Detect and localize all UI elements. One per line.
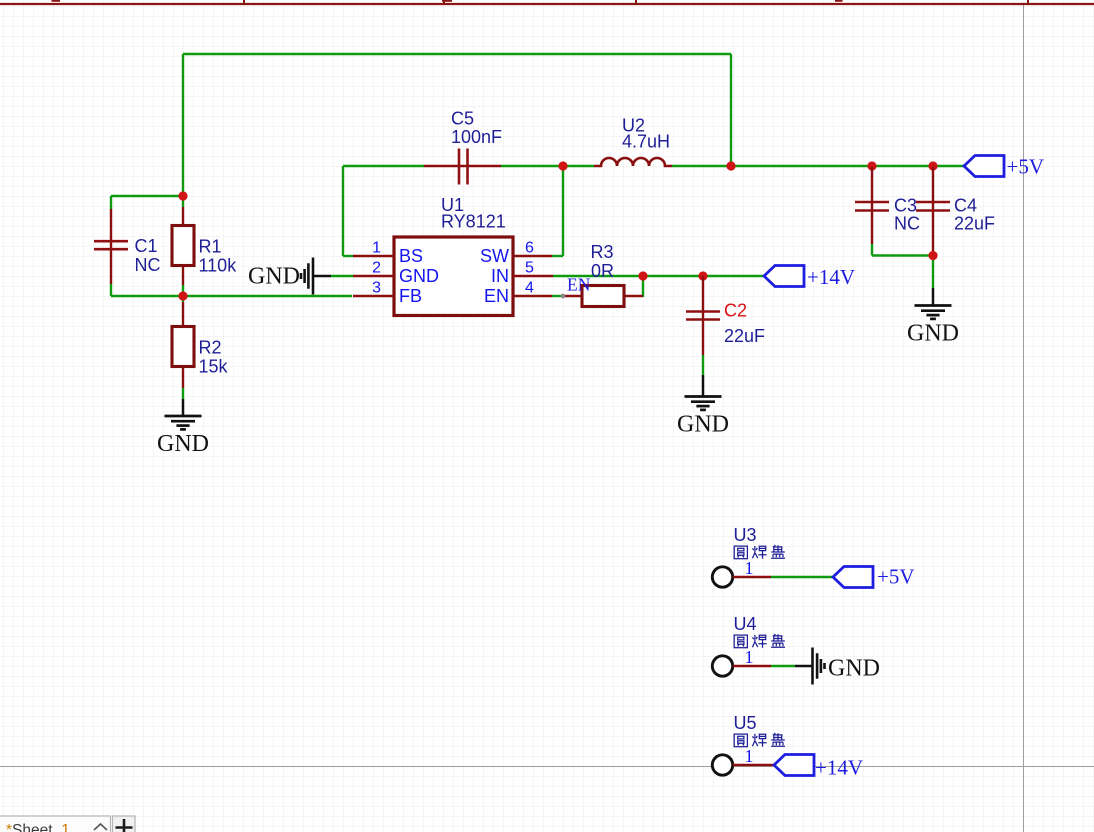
ground symbol GND under C4 xyxy=(915,288,952,319)
ground symbol GND under R2 xyxy=(165,399,202,429)
power flag +5V at U3 xyxy=(833,567,873,588)
capacitor C5 xyxy=(458,149,461,185)
wire C1 bottom horizontal xyxy=(111,295,183,297)
capacitor C1 plates xyxy=(94,240,128,243)
svg-text:+14V: +14V xyxy=(807,265,855,289)
U4 pin lead xyxy=(733,665,771,667)
label U5 value round-pad (CJK drawn) xyxy=(734,733,785,747)
capacitor C3 leads xyxy=(871,167,873,244)
junction node I (C2/IN) xyxy=(698,271,707,280)
svg-text:1: 1 xyxy=(745,746,754,766)
svg-text:EN: EN xyxy=(567,275,591,295)
label U3 value round-pad (CJK drawn) xyxy=(734,545,785,559)
wire C5 right to inductor xyxy=(501,165,594,167)
wire R1-R2 node stub xyxy=(182,285,184,302)
svg-text:1: 1 xyxy=(372,240,381,257)
wire C2 to ground stub xyxy=(702,355,704,375)
wire C4 bottom to ground xyxy=(932,256,934,289)
svg-text:EN: EN xyxy=(484,286,509,306)
svg-text:110k: 110k xyxy=(199,256,238,276)
wire C1 bottom stub xyxy=(110,284,112,296)
connector U4 round pad circle xyxy=(712,656,732,676)
wire C3-C4 bottom horizontal xyxy=(872,254,933,256)
junction node G (C3/C4 bottom) xyxy=(928,251,937,260)
power flag +5V main xyxy=(964,156,1004,177)
svg-text:C3: C3 xyxy=(894,196,917,216)
svg-text:0R: 0R xyxy=(591,261,614,281)
svg-text:NC: NC xyxy=(894,214,920,234)
capacitor C4 leads xyxy=(932,167,934,251)
net label EN anchor dot xyxy=(561,294,566,299)
wire to pin1 xyxy=(343,255,353,257)
svg-text:GND: GND xyxy=(399,266,439,286)
svg-text:GND: GND xyxy=(828,656,880,682)
connector U5 round pad circle xyxy=(712,755,732,775)
svg-text:GND: GND xyxy=(907,321,959,347)
junction node E (C3 top) xyxy=(867,161,876,170)
sheet border ticks xyxy=(244,0,1028,5)
capacitor C2 xyxy=(686,310,720,313)
wire C1 top horizontal xyxy=(111,195,183,197)
inductor U2 4.7uH xyxy=(594,158,672,166)
canvas origin axis horizontal xyxy=(0,766,1094,768)
wire SW net vertical xyxy=(562,166,564,256)
junction node H (R3/IN) xyxy=(638,271,647,280)
U1 pin numbers xyxy=(372,240,534,297)
U1 pin names xyxy=(399,246,514,306)
svg-text:4: 4 xyxy=(525,280,534,297)
resistor R1 leads xyxy=(182,207,184,226)
power flag +14V at U5 xyxy=(774,755,814,776)
wire C1 top stub xyxy=(110,196,112,209)
svg-text:C2: C2 xyxy=(724,301,747,321)
resistor R2 leads xyxy=(182,302,184,327)
junction node B (FB divider) xyxy=(178,291,187,300)
U5 pin lead xyxy=(733,764,774,766)
svg-text:15k: 15k xyxy=(199,357,229,377)
resistor R1 xyxy=(172,226,194,266)
wire top loop horizontal xyxy=(183,53,731,55)
svg-text:R3: R3 xyxy=(591,242,614,262)
wire top loop right vertical xyxy=(730,54,732,166)
U1 pin 3 FB xyxy=(353,295,394,297)
wire U4 to ground flag xyxy=(771,665,795,667)
junction node D (loop/+5V rail) xyxy=(726,161,735,170)
capacitor C2 leads xyxy=(702,276,704,355)
resistor R3 leads xyxy=(564,295,582,297)
U1 pin 1 BS xyxy=(353,255,394,257)
wire top loop left vertical xyxy=(182,54,184,196)
wire C5 left horizontal xyxy=(343,165,424,167)
svg-text:GND: GND xyxy=(677,412,729,438)
svg-text:2: 2 xyxy=(372,260,381,277)
svg-text:6: 6 xyxy=(525,240,534,257)
svg-text:22uF: 22uF xyxy=(724,326,765,346)
wire R2 to ground stub xyxy=(182,388,184,399)
svg-text:C4: C4 xyxy=(954,196,977,216)
svg-text:22uF: 22uF xyxy=(954,214,995,234)
svg-text:U3: U3 xyxy=(734,525,757,545)
junction node A (C1/R1 top) xyxy=(178,191,187,200)
svg-text:+5V: +5V xyxy=(1007,155,1045,179)
resistor R3 xyxy=(582,286,624,307)
svg-text:4.7uH: 4.7uH xyxy=(622,132,670,152)
wire U3 to +5V flag xyxy=(771,576,833,578)
svg-text:BS: BS xyxy=(399,246,423,266)
ground symbol GND under C2 xyxy=(685,375,722,410)
svg-text:+14V: +14V xyxy=(815,756,863,780)
capacitor C4 xyxy=(916,201,950,204)
svg-text:R1: R1 xyxy=(199,237,222,257)
wire R3 right vertical xyxy=(642,276,644,297)
U1 pin 5 IN xyxy=(513,275,553,277)
svg-text:1: 1 xyxy=(745,558,754,578)
svg-text:1: 1 xyxy=(745,647,754,667)
junction node C (C5/SW) xyxy=(558,161,567,170)
wire FB net to pin3 xyxy=(183,295,352,297)
svg-text:SW: SW xyxy=(480,246,509,266)
U1 pin 4 EN xyxy=(513,295,552,297)
svg-text:NC: NC xyxy=(135,255,161,275)
svg-text:GND: GND xyxy=(248,264,300,290)
wire GND flag to pin2 xyxy=(331,275,353,277)
resistor R2 xyxy=(172,327,194,367)
connector U3 round pad circle xyxy=(712,567,732,587)
svg-text:U4: U4 xyxy=(734,614,757,634)
svg-text:IN: IN xyxy=(491,266,509,286)
label U4 value round-pad (CJK drawn) xyxy=(734,634,785,648)
svg-text:5: 5 xyxy=(525,260,534,277)
wire C3 bottom stub xyxy=(871,244,873,256)
sheet tab bar xyxy=(0,816,135,832)
svg-text:C1: C1 xyxy=(135,236,158,256)
U1 pin 6 SW xyxy=(513,255,552,257)
svg-text:3: 3 xyxy=(372,280,381,297)
power flag +14V main xyxy=(764,266,804,287)
capacitor C5 leads xyxy=(424,165,501,167)
svg-text:FB: FB xyxy=(399,286,422,306)
power flag GND (U4) symbol xyxy=(795,648,825,685)
wire C5 left vertical xyxy=(342,166,344,256)
wire IN net to +14V flag xyxy=(553,275,764,277)
svg-text:U5: U5 xyxy=(734,713,757,733)
svg-text:RY8121: RY8121 xyxy=(441,212,506,232)
sheet border top line xyxy=(0,3,1094,5)
svg-text:*Sheet_1: *Sheet_1 xyxy=(6,822,70,832)
sheet border cropped column digits xyxy=(52,0,843,2)
wire R1 top stub xyxy=(182,195,184,207)
wire to pin6 xyxy=(552,255,563,257)
canvas origin axis vertical xyxy=(1023,5,1025,832)
svg-text:R2: R2 xyxy=(199,338,222,358)
svg-text:+5V: +5V xyxy=(877,565,915,589)
svg-text:C5: C5 xyxy=(451,109,474,129)
svg-text:100nF: 100nF xyxy=(451,127,502,147)
power flag GND (pin2) symbol xyxy=(301,258,331,295)
svg-text:GND: GND xyxy=(157,431,209,457)
capacitor C3 xyxy=(855,201,889,204)
junction node F (C4 top) xyxy=(928,161,937,170)
U1 pin 2 GND xyxy=(353,275,394,277)
U3 pin lead xyxy=(733,576,771,578)
op-amp U1 RY8121 body xyxy=(394,237,513,316)
capacitor C1 leads xyxy=(110,209,112,284)
wire inductor to +5V flag xyxy=(672,165,964,167)
wire pin4 stub xyxy=(552,295,564,297)
